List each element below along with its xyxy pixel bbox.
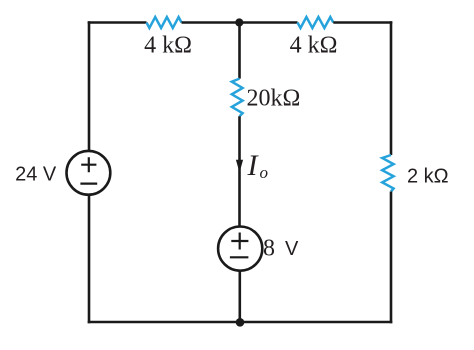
plus sign of V1	[81, 157, 96, 172]
minus sign of V1	[80, 183, 97, 185]
wire bottom	[88, 321, 393, 324]
wire top-right segment	[333, 21, 392, 24]
current arrow Io head	[236, 160, 243, 173]
wire middle branch upper	[238, 23, 241, 79]
voltage source V1 24V	[67, 151, 111, 195]
svg-text:V: V	[285, 238, 299, 260]
wire right branch upper	[390, 21, 393, 155]
svg-text:2 kΩ: 2 kΩ	[407, 166, 449, 188]
svg-text:o: o	[260, 163, 269, 182]
wire top-left segment	[88, 21, 147, 24]
plus sign of V2	[231, 233, 248, 250]
resistor R1 4kohm top-left	[147, 17, 182, 28]
node bottom junction	[236, 318, 245, 327]
wire left branch lower	[88, 195, 91, 324]
svg-text:20kΩ: 20kΩ	[247, 86, 301, 112]
wire right branch lower	[390, 192, 393, 324]
svg-text:4 kΩ: 4 kΩ	[144, 33, 192, 59]
wire middle branch lower	[239, 271, 242, 324]
resistor R2 4kohm top-right	[298, 17, 334, 28]
voltage source V2 8V	[218, 227, 262, 271]
resistor R4 2kohm right	[382, 155, 393, 192]
wire top-middle segment	[182, 21, 298, 24]
minus sign of V2	[230, 256, 249, 258]
wire left branch upper	[88, 21, 91, 151]
svg-text:24 V: 24 V	[15, 164, 57, 186]
svg-text:4 kΩ: 4 kΩ	[290, 33, 338, 59]
wire middle branch with current	[238, 116, 241, 226]
svg-text:8: 8	[263, 236, 275, 262]
svg-text:I: I	[247, 149, 260, 182]
node top junction	[235, 18, 243, 26]
resistor R3 20kohm middle	[232, 79, 243, 117]
